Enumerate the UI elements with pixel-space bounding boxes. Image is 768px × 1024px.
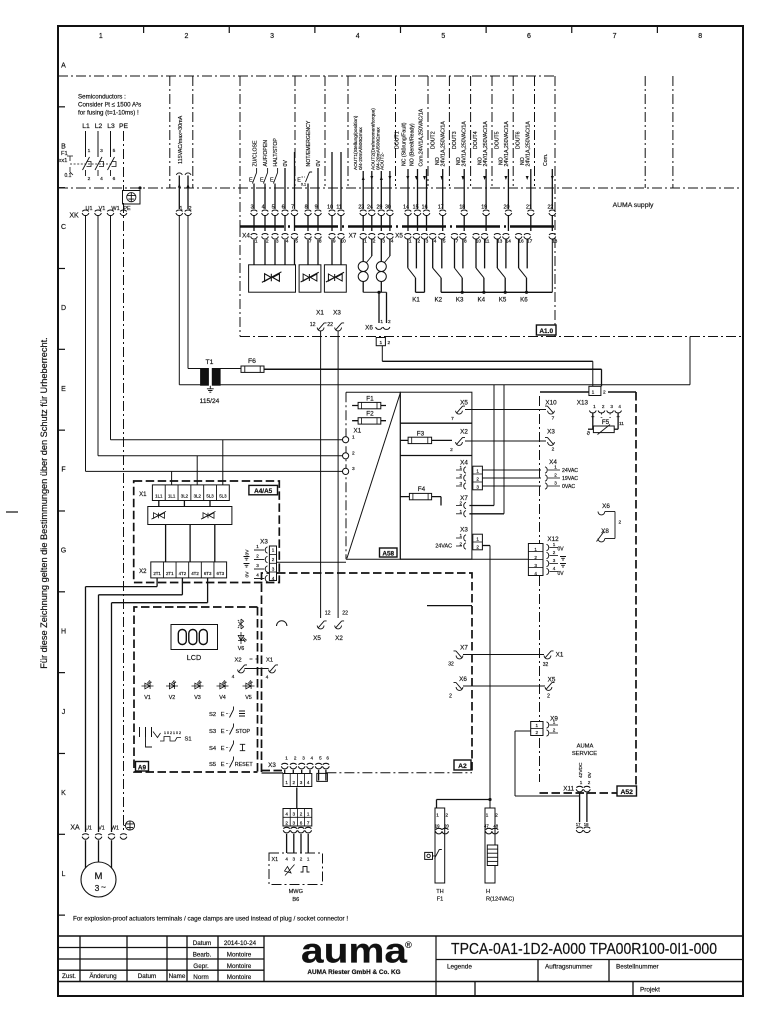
svg-text:4: 4 xyxy=(256,573,259,578)
svg-text:K6: K6 xyxy=(520,297,528,304)
relay K1 xyxy=(408,240,425,304)
wire X9 down xyxy=(514,731,516,796)
wire A9 bottom to X3 block xyxy=(262,772,284,774)
svg-text:TPCA-0A1-1D2-A000 TPA00R100-0: TPCA-0A1-1D2-A000 TPA00R100-0I1-000 xyxy=(451,941,717,958)
svg-text:®: ® xyxy=(405,940,412,950)
svg-text:3: 3 xyxy=(270,33,274,40)
board A1.0 left dash-dot xyxy=(239,227,241,337)
svg-text:4: 4 xyxy=(100,176,103,182)
svg-text:X6: X6 xyxy=(365,325,373,332)
svg-text:V1: V1 xyxy=(144,695,151,701)
svg-text:4: 4 xyxy=(311,756,314,761)
svg-text:4: 4 xyxy=(356,33,360,40)
svg-text:4T2: 4T2 xyxy=(191,571,199,576)
svg-text:1: 1 xyxy=(99,33,103,40)
svg-text:For explosion-proof actuators: For explosion-proof actuators terminals … xyxy=(73,916,348,923)
svg-text:1: 1 xyxy=(459,509,462,514)
svg-text:22: 22 xyxy=(342,611,348,617)
svg-text:47: 47 xyxy=(484,823,489,828)
svg-text:X7: X7 xyxy=(460,645,468,652)
jumper loop X3 pins 5-6 xyxy=(318,773,320,781)
svg-text:DOUT1: DOUT1 xyxy=(395,131,401,149)
svg-text:Auftragsnummer: Auftragsnummer xyxy=(545,964,593,971)
svg-text:0V: 0V xyxy=(557,547,564,553)
svg-text:3: 3 xyxy=(382,239,385,245)
svg-text:L: L xyxy=(62,871,66,878)
svg-text:115VAC/max=30mA: 115VAC/max=30mA xyxy=(178,115,184,164)
svg-text:1: 1 xyxy=(272,548,275,553)
svg-text:1: 1 xyxy=(256,544,259,549)
plug block X3 pins 1-4 xyxy=(283,774,312,787)
svg-text:Montoire: Montoire xyxy=(227,963,252,970)
wire up to boundary xyxy=(689,337,691,385)
wire 115VAC-2 down to T1 xyxy=(187,216,189,369)
svg-text:X2: X2 xyxy=(335,635,343,642)
svg-text:3: 3 xyxy=(256,563,259,568)
svg-text:2: 2 xyxy=(553,550,556,555)
wires X2 strip to motor feeders xyxy=(156,578,158,587)
wire phase feeder xyxy=(97,131,99,157)
svg-text:6: 6 xyxy=(326,756,329,761)
svg-text:2: 2 xyxy=(459,473,462,478)
svg-text:~: ~ xyxy=(101,882,106,892)
svg-text:6T3: 6T3 xyxy=(204,571,212,576)
wire X7-X1 xyxy=(463,654,544,656)
svg-text:X5: X5 xyxy=(313,635,321,642)
svg-text:2: 2 xyxy=(417,239,420,245)
svg-text:L3: L3 xyxy=(107,123,115,130)
wire X5 to X10 xyxy=(465,409,546,411)
svg-text:ex1: ex1 xyxy=(58,158,67,164)
svg-text:3: 3 xyxy=(534,563,537,568)
svg-text:NC (Störung/Fault): NC (Störung/Fault) xyxy=(401,122,407,166)
wire drop to X1 strip 1L1 xyxy=(171,471,173,485)
svg-text:2: 2 xyxy=(450,447,453,453)
svg-text:0V: 0V xyxy=(587,771,593,778)
wire X3 to A58 xyxy=(277,561,347,563)
region A52 boundary xyxy=(540,391,589,393)
heater H R(124VAC) xyxy=(485,808,495,883)
svg-text:1: 1 xyxy=(554,465,557,470)
svg-text:5: 5 xyxy=(113,148,116,154)
svg-text:S2: S2 xyxy=(209,712,216,718)
current sensors under X7 xyxy=(362,240,364,262)
svg-text:XA: XA xyxy=(70,825,80,832)
title block xyxy=(58,935,743,937)
wire L1 to A58 X1.3 xyxy=(86,470,343,472)
LEDs V1-V5 xyxy=(142,681,154,689)
board A1.0 top heavy dashed xyxy=(240,225,556,228)
arrows on AOUT wires xyxy=(362,176,365,180)
svg-text:E: E xyxy=(61,386,66,393)
enclosure boundary top dash-dot xyxy=(58,75,555,77)
S4 remote symbol xyxy=(240,744,245,750)
svg-text:for fusing (t=1-10ms) !: for fusing (t=1-10ms) ! xyxy=(78,110,139,117)
wire phase feeder xyxy=(110,131,112,157)
svg-text:4: 4 xyxy=(434,239,437,245)
svg-text:S1: S1 xyxy=(185,737,192,743)
wire L2 down xyxy=(97,216,99,456)
svg-text:9: 9 xyxy=(333,239,336,245)
board label A1.0 xyxy=(536,325,556,335)
svg-text:3: 3 xyxy=(293,812,296,817)
svg-text:A9: A9 xyxy=(138,764,147,771)
thermal switch TH F1 xyxy=(435,808,445,883)
svg-text:1: 1 xyxy=(459,465,462,470)
svg-text:4: 4 xyxy=(232,674,235,680)
svg-text:1: 1 xyxy=(307,812,310,817)
svg-text:M: M xyxy=(95,871,103,882)
svg-text:NOT/EMERGENCY: NOT/EMERGENCY xyxy=(306,120,312,166)
svg-text:A: A xyxy=(61,63,66,70)
svg-text:2: 2 xyxy=(459,541,462,546)
svg-text:2: 2 xyxy=(459,501,462,506)
svg-text:4: 4 xyxy=(285,857,288,862)
svg-text:0V: 0V xyxy=(245,549,251,556)
svg-text:L2: L2 xyxy=(95,123,103,130)
A2 internal divider xyxy=(427,605,472,607)
svg-text:2: 2 xyxy=(534,555,537,560)
svg-text:2: 2 xyxy=(388,319,391,325)
wire 22 down to A2 xyxy=(337,331,339,619)
LCD display xyxy=(171,625,218,650)
svg-text:12: 12 xyxy=(325,611,331,617)
svg-text:Semiconductors :: Semiconductors : xyxy=(78,94,126,101)
svg-text:7: 7 xyxy=(456,239,459,245)
relay K5 xyxy=(497,240,507,304)
svg-text:E: E xyxy=(221,746,225,752)
svg-text:1: 1 xyxy=(459,533,462,538)
svg-text:19VAC: 19VAC xyxy=(562,476,578,482)
svg-text:-: - xyxy=(609,415,611,421)
wire PE dash-dot down to motor xyxy=(123,203,125,832)
svg-text:2: 2 xyxy=(88,176,91,182)
115VAC corridor dash-dot right xyxy=(192,76,194,188)
svg-text:3: 3 xyxy=(426,239,429,245)
title number box xyxy=(435,936,437,996)
svg-text:C: C xyxy=(61,224,66,231)
svg-text:B6: B6 xyxy=(292,897,299,903)
svg-text:2: 2 xyxy=(256,554,259,559)
svg-text:1: 1 xyxy=(486,813,489,818)
svg-text:4T2: 4T2 xyxy=(179,571,187,576)
supply corridor dash-dot left xyxy=(644,76,646,188)
wire drop to X1 strip 5L3 xyxy=(222,440,224,485)
svg-text:F1: F1 xyxy=(61,151,68,157)
wire into T1 lower xyxy=(179,384,200,386)
svg-text:G: G xyxy=(61,547,66,554)
svg-text:E: E xyxy=(221,729,225,735)
svg-text:4: 4 xyxy=(285,812,288,817)
svg-text:1: 1 xyxy=(580,780,583,785)
svg-text:2: 2 xyxy=(188,206,191,212)
svg-text:2: 2 xyxy=(495,813,498,818)
relay K6 xyxy=(519,240,529,304)
svg-text:Datum: Datum xyxy=(138,973,157,980)
svg-text:2: 2 xyxy=(272,557,275,562)
svg-text:3: 3 xyxy=(272,567,275,572)
svg-text:Com.24V/1A,250VAC/1A: Com.24V/1A,250VAC/1A xyxy=(418,108,424,166)
svg-text:W1: W1 xyxy=(111,826,119,832)
svg-text:Bestellnummer: Bestellnummer xyxy=(616,964,659,971)
svg-text:22: 22 xyxy=(327,322,333,328)
svg-text:X11: X11 xyxy=(563,786,574,793)
svg-text:5L3: 5L3 xyxy=(206,494,214,499)
svg-text:6T3: 6T3 xyxy=(216,571,224,576)
svg-text:1: 1 xyxy=(536,723,539,728)
svg-text:24V/1A,250VAC/1A: 24V/1A,250VAC/1A xyxy=(440,121,446,167)
svg-text:2: 2 xyxy=(547,694,550,700)
svg-text:2: 2 xyxy=(619,520,622,526)
svg-text:X3: X3 xyxy=(260,539,268,546)
wire X7.1 up xyxy=(503,385,505,514)
svg-text:6: 6 xyxy=(300,820,303,825)
wire A58 0V to X12 xyxy=(400,558,528,560)
svg-text:TH: TH xyxy=(436,889,443,895)
hall sensor glyph xyxy=(285,865,295,876)
svg-text:2: 2 xyxy=(602,404,605,409)
selector switch S1 xyxy=(140,727,152,737)
svg-text:24V/1A,250VAC/1A: 24V/1A,250VAC/1A xyxy=(526,121,532,167)
svg-text:D: D xyxy=(61,305,66,312)
svg-text:X3: X3 xyxy=(547,429,555,436)
svg-text:32: 32 xyxy=(448,662,454,668)
svg-text:F4: F4 xyxy=(418,486,426,493)
svg-text:Gepr.: Gepr. xyxy=(193,963,209,970)
svg-text:V5: V5 xyxy=(245,695,252,701)
svg-text:3: 3 xyxy=(276,239,279,245)
wire X7.2 up xyxy=(493,385,495,506)
svg-text:2: 2 xyxy=(536,730,539,735)
wire T1 to F6 xyxy=(220,368,241,370)
svg-text:X1: X1 xyxy=(316,310,324,317)
svg-text:A4/A5: A4/A5 xyxy=(254,488,273,495)
label corridor dash-dot dividers xyxy=(294,76,296,186)
svg-text:1L1: 1L1 xyxy=(168,494,176,499)
115VAC corridor dash-dot left xyxy=(169,76,171,188)
svg-text:2014-10-24: 2014-10-24 xyxy=(224,940,257,947)
svg-text:0.1: 0.1 xyxy=(301,183,306,187)
svg-text:2: 2 xyxy=(588,780,591,785)
svg-text:3: 3 xyxy=(476,485,479,490)
board A2 heavy dashed box xyxy=(262,573,270,772)
wire phase feeder xyxy=(85,131,87,157)
svg-text:X1: X1 xyxy=(354,428,362,435)
svg-text:F1: F1 xyxy=(366,396,374,403)
svg-text:0V: 0V xyxy=(316,160,322,167)
svg-text:DOUT2: DOUT2 xyxy=(431,131,437,149)
svg-text:2: 2 xyxy=(293,780,296,785)
wire X4.2 xyxy=(482,477,541,479)
svg-text:4: 4 xyxy=(618,404,621,409)
svg-text:AUMA: AUMA xyxy=(577,744,594,750)
svg-text:SERVICE: SERVICE xyxy=(572,751,597,757)
svg-text:7: 7 xyxy=(613,33,617,40)
svg-text:F: F xyxy=(61,467,65,474)
svg-text:S5: S5 xyxy=(209,762,216,768)
svg-text:2: 2 xyxy=(476,545,479,550)
bluetooth symbol xyxy=(238,619,244,629)
svg-text:Projekt: Projekt xyxy=(640,987,660,994)
svg-text:1: 1 xyxy=(352,435,355,441)
svg-text:V1: V1 xyxy=(98,826,105,832)
svg-text:A52: A52 xyxy=(620,789,633,796)
svg-text:L1: L1 xyxy=(82,123,90,130)
svg-text:X2: X2 xyxy=(460,429,468,436)
svg-text:19: 19 xyxy=(435,823,440,828)
svg-text:X1: X1 xyxy=(272,857,279,863)
svg-text:Änderung: Änderung xyxy=(89,972,117,980)
svg-text:1: 1 xyxy=(307,857,310,862)
A1.0 bottom boundary dash-dot xyxy=(240,336,743,338)
svg-text:X13: X13 xyxy=(577,400,589,407)
svg-text:DOUT3: DOUT3 xyxy=(452,131,458,149)
svg-text:K2: K2 xyxy=(434,297,442,304)
svg-text:7: 7 xyxy=(552,416,555,422)
svg-text:2: 2 xyxy=(300,857,303,862)
svg-text:F3: F3 xyxy=(417,431,425,438)
svg-text:T1: T1 xyxy=(206,359,214,366)
S2 local symbol xyxy=(239,711,245,716)
svg-text:4: 4 xyxy=(286,239,289,245)
svg-text:8: 8 xyxy=(698,33,702,40)
wire 115VAC-1 down to T1 xyxy=(178,216,180,385)
wire PE dash-dot upper xyxy=(123,131,125,203)
svg-text:7: 7 xyxy=(307,820,310,825)
svg-text:0V: 0V xyxy=(557,571,564,577)
svg-text:DOUT6: DOUT6 xyxy=(516,131,522,149)
svg-text:X5: X5 xyxy=(548,677,556,684)
relay K4 xyxy=(476,240,486,304)
wire F6 to X13.2 xyxy=(264,368,602,370)
svg-text:X5: X5 xyxy=(460,400,468,407)
svg-text:1: 1 xyxy=(364,239,367,245)
svg-text:3L2: 3L2 xyxy=(181,494,189,499)
svg-text:S4: S4 xyxy=(209,746,217,752)
svg-text:3: 3 xyxy=(95,883,100,893)
LED V6 xyxy=(238,632,246,644)
svg-text:X5: X5 xyxy=(395,232,403,239)
A58 right column box xyxy=(400,392,472,559)
svg-text:1: 1 xyxy=(380,319,383,325)
svg-text:6: 6 xyxy=(113,176,116,182)
svg-text:F1: F1 xyxy=(437,897,444,903)
board A4/A5 heavy dashed box xyxy=(134,481,280,583)
svg-text:DOUT4: DOUT4 xyxy=(473,131,479,149)
svg-text:3: 3 xyxy=(300,780,303,785)
svg-text:J: J xyxy=(62,709,66,716)
svg-text:X3: X3 xyxy=(268,762,276,769)
wires terminal row to X4/X7/X5 xyxy=(253,216,255,231)
wire X6-X5 xyxy=(463,685,545,687)
svg-text:7: 7 xyxy=(309,239,312,245)
stubs thyristors to X2 strip xyxy=(165,525,167,562)
svg-text:auma: auma xyxy=(301,932,408,971)
svg-text:K5: K5 xyxy=(499,297,507,304)
pulse glyph xyxy=(301,867,310,873)
svg-text:V3: V3 xyxy=(194,695,201,701)
svg-text:E: E xyxy=(221,712,225,718)
svg-text:1 0 2 1 0 2: 1 0 2 1 0 2 xyxy=(164,731,181,735)
buzzer symbol xyxy=(277,621,287,626)
svg-text:11: 11 xyxy=(485,239,490,245)
svg-text:48: 48 xyxy=(493,823,498,828)
svg-text:3: 3 xyxy=(100,148,103,154)
PE earth at XK xyxy=(123,191,141,205)
wire drop to X1 strip 3L2 xyxy=(196,456,198,485)
position sensor MWG B6 xyxy=(269,853,323,885)
svg-text:PE: PE xyxy=(123,206,131,212)
board label A9 xyxy=(136,762,149,772)
svg-text:RESET: RESET xyxy=(235,762,254,768)
svg-text:2: 2 xyxy=(446,813,449,818)
svg-text:R(124VAC): R(124VAC) xyxy=(486,897,514,903)
svg-text:3: 3 xyxy=(610,404,613,409)
svg-text:24V/1A,250VAC/1A: 24V/1A,250VAC/1A xyxy=(483,121,489,167)
wire L1 down xyxy=(85,216,87,471)
svg-text:2: 2 xyxy=(603,390,606,396)
svg-text:2: 2 xyxy=(552,447,555,453)
svg-text:5: 5 xyxy=(295,239,298,245)
svg-text:18: 18 xyxy=(552,239,558,245)
board label A58 xyxy=(380,548,398,557)
wire X9.2 xyxy=(515,730,531,732)
svg-text:3: 3 xyxy=(293,820,296,825)
svg-text:5: 5 xyxy=(443,239,446,245)
svg-text:5: 5 xyxy=(441,33,445,40)
wire 24VAC down to heater xyxy=(489,546,491,810)
svg-text:X3: X3 xyxy=(333,310,341,317)
svg-text:3L2: 3L2 xyxy=(194,494,202,499)
svg-text:S3: S3 xyxy=(209,729,216,735)
svg-text:2T1: 2T1 xyxy=(166,571,174,576)
wire X9 to X11 xyxy=(515,795,580,797)
supply corridor dash-dot right xyxy=(672,76,674,188)
svg-text:2: 2 xyxy=(300,812,303,817)
thyristor block 3 xyxy=(324,265,346,292)
svg-text:1: 1 xyxy=(476,537,479,542)
svg-text:NO (Bereit/Ready): NO (Bereit/Ready) xyxy=(409,123,415,166)
row ruler ticks xyxy=(58,106,65,108)
svg-text:1: 1 xyxy=(409,239,412,245)
svg-text:V6: V6 xyxy=(238,646,245,652)
board label A2 xyxy=(454,760,471,770)
svg-text:1: 1 xyxy=(285,756,288,761)
wire X3 to MWG coupling xyxy=(296,788,298,813)
svg-text:24VAC: 24VAC xyxy=(562,468,578,474)
svg-text:2: 2 xyxy=(387,340,390,346)
svg-text:F6: F6 xyxy=(248,358,256,365)
svg-text:4: 4 xyxy=(534,571,537,576)
svg-text:20: 20 xyxy=(444,823,449,828)
wires above terminals xyxy=(253,184,255,210)
svg-text:X7: X7 xyxy=(349,232,357,239)
svg-text:7: 7 xyxy=(451,416,454,422)
svg-text:1: 1 xyxy=(553,720,556,725)
svg-text:X10: X10 xyxy=(545,400,557,407)
svg-text:3: 3 xyxy=(293,857,296,862)
svg-text:MWG: MWG xyxy=(289,889,303,895)
svg-text:3: 3 xyxy=(554,481,557,486)
wire X2 to X3 xyxy=(465,440,546,442)
svg-text:1: 1 xyxy=(593,404,596,409)
svg-text:B: B xyxy=(61,143,66,150)
svg-text:K: K xyxy=(61,790,66,797)
svg-text:2: 2 xyxy=(184,33,188,40)
PE earth at XA xyxy=(125,821,134,830)
svg-text:X1: X1 xyxy=(556,652,564,659)
svg-text:ZU/CLOSE: ZU/CLOSE xyxy=(253,140,259,166)
